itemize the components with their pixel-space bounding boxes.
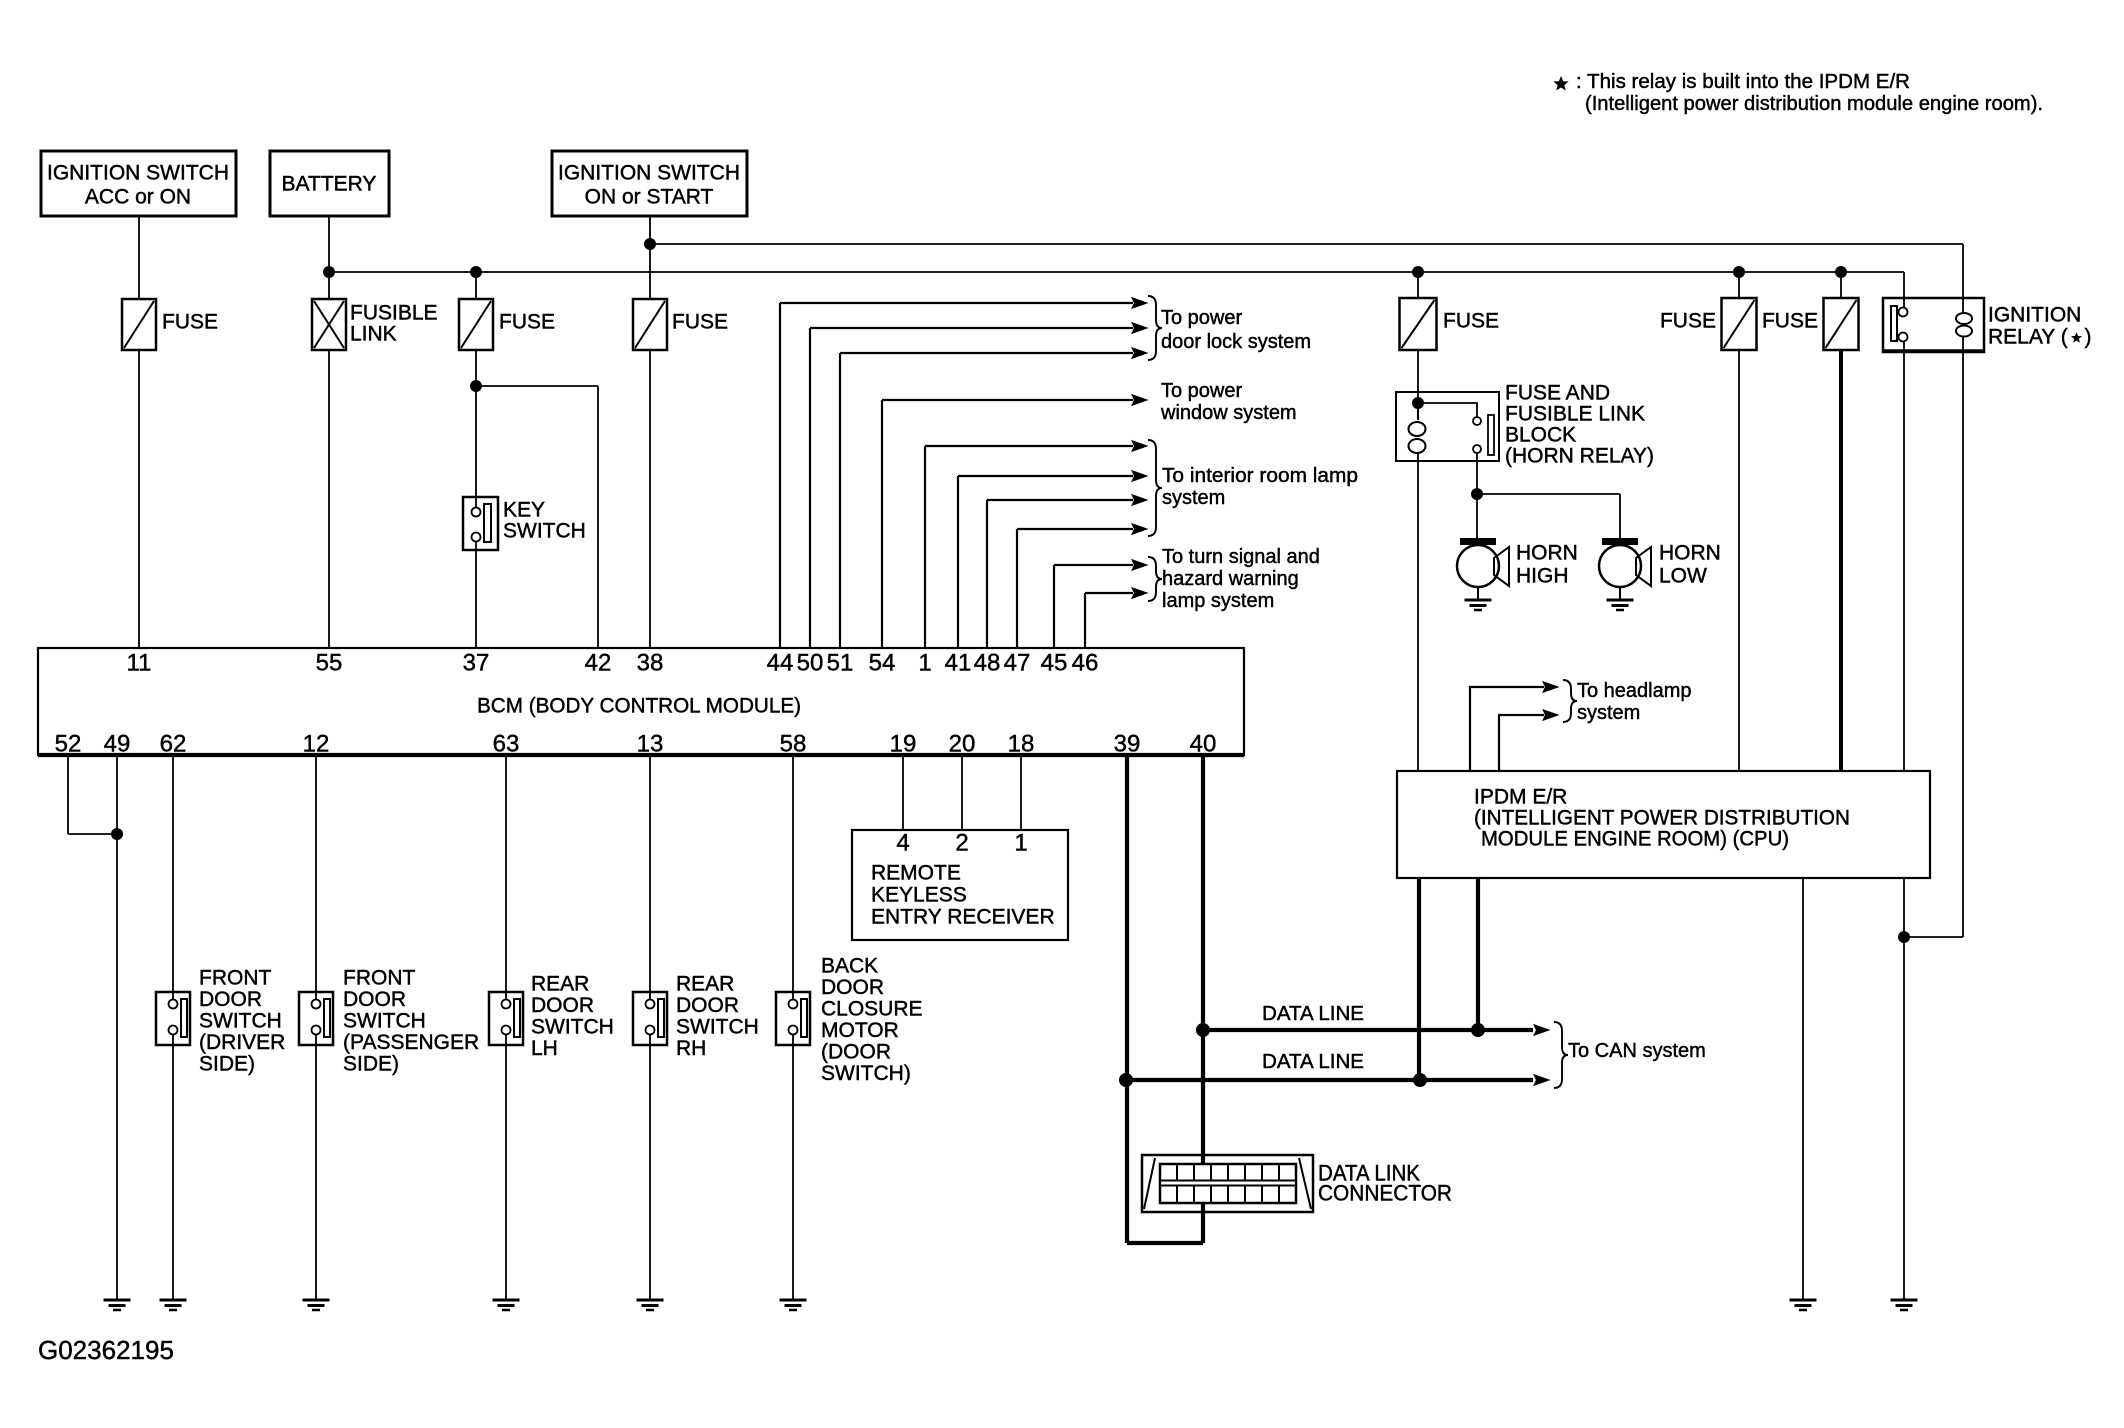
svg-text:51: 51 bbox=[827, 650, 854, 677]
svg-text:SWITCH: SWITCH bbox=[503, 520, 586, 543]
svg-text:DATA LINE: DATA LINE bbox=[1262, 1003, 1364, 1025]
svg-text:CONNECTOR: CONNECTOR bbox=[1318, 1181, 1452, 1206]
svg-text:ON or START: ON or START bbox=[585, 186, 714, 209]
svg-text:MODULE ENGINE ROOM) (CPU): MODULE ENGINE ROOM) (CPU) bbox=[1481, 828, 1789, 851]
svg-text:To CAN system: To CAN system bbox=[1568, 1040, 1706, 1062]
svg-text:48: 48 bbox=[974, 650, 1001, 677]
svg-text:40: 40 bbox=[1190, 731, 1217, 758]
svg-text:system: system bbox=[1577, 702, 1640, 724]
svg-text:54: 54 bbox=[869, 650, 896, 677]
svg-text:(Intelligent power distributio: (Intelligent power distribution module e… bbox=[1585, 93, 2043, 115]
svg-text:50: 50 bbox=[797, 650, 824, 677]
svg-text:12: 12 bbox=[303, 731, 330, 758]
svg-text:39: 39 bbox=[1114, 731, 1141, 758]
svg-text:door lock system: door lock system bbox=[1161, 331, 1311, 353]
svg-text:REAR: REAR bbox=[531, 973, 589, 996]
svg-text:FUSE: FUSE bbox=[1762, 310, 1818, 333]
svg-text:ENTRY RECEIVER: ENTRY RECEIVER bbox=[871, 906, 1055, 929]
svg-text:4: 4 bbox=[896, 830, 909, 857]
svg-text:To interior room lamp: To interior room lamp bbox=[1162, 465, 1358, 487]
svg-text:49: 49 bbox=[104, 731, 131, 758]
svg-text:1: 1 bbox=[1014, 830, 1027, 857]
svg-text:FUSE: FUSE bbox=[1660, 310, 1716, 333]
svg-text:(DOOR: (DOOR bbox=[821, 1041, 891, 1064]
svg-text:To power: To power bbox=[1161, 307, 1242, 329]
svg-text:REMOTE: REMOTE bbox=[871, 862, 961, 885]
svg-text:REAR: REAR bbox=[676, 973, 734, 996]
svg-text:62: 62 bbox=[160, 731, 187, 758]
svg-text:DOOR: DOOR bbox=[199, 988, 262, 1011]
svg-text:FRONT: FRONT bbox=[343, 967, 415, 990]
svg-text:BACK: BACK bbox=[821, 955, 878, 978]
svg-text:2: 2 bbox=[955, 830, 968, 857]
svg-text:HORN: HORN bbox=[1516, 542, 1578, 565]
svg-text:HORN: HORN bbox=[1659, 542, 1721, 565]
svg-text:IGNITION SWITCH: IGNITION SWITCH bbox=[47, 162, 229, 185]
svg-text:ACC or ON: ACC or ON bbox=[85, 186, 191, 209]
svg-text:47: 47 bbox=[1004, 650, 1031, 677]
svg-text:1: 1 bbox=[918, 650, 931, 677]
svg-text:DATA LINE: DATA LINE bbox=[1262, 1051, 1364, 1073]
svg-text:58: 58 bbox=[780, 731, 807, 758]
svg-text:RELAY (: RELAY ( bbox=[1988, 326, 2068, 349]
svg-text:SWITCH): SWITCH) bbox=[821, 1062, 911, 1085]
svg-text:SWITCH: SWITCH bbox=[676, 1016, 759, 1039]
svg-text:FUSE: FUSE bbox=[162, 311, 218, 334]
svg-text:hazard warning: hazard warning bbox=[1162, 568, 1299, 590]
svg-text:LOW: LOW bbox=[1659, 565, 1707, 588]
svg-text:SWITCH: SWITCH bbox=[531, 1016, 614, 1039]
svg-text:DOOR: DOOR bbox=[821, 976, 884, 999]
svg-text:(PASSENGER: (PASSENGER bbox=[343, 1031, 479, 1054]
svg-text:FUSIBLE LINK: FUSIBLE LINK bbox=[1505, 403, 1645, 426]
svg-text:MOTOR: MOTOR bbox=[821, 1019, 899, 1042]
svg-text:SIDE): SIDE) bbox=[343, 1053, 399, 1076]
svg-text:): ) bbox=[2085, 326, 2092, 349]
svg-text:46: 46 bbox=[1072, 650, 1099, 677]
svg-text:13: 13 bbox=[637, 731, 664, 758]
svg-text:11: 11 bbox=[127, 650, 152, 677]
svg-text:63: 63 bbox=[493, 731, 520, 758]
svg-text:(HORN RELAY): (HORN RELAY) bbox=[1505, 445, 1654, 468]
svg-text:FRONT: FRONT bbox=[199, 967, 271, 990]
svg-text:18: 18 bbox=[1008, 731, 1035, 758]
svg-text:IGNITION SWITCH: IGNITION SWITCH bbox=[558, 162, 740, 185]
svg-text:window system: window system bbox=[1160, 402, 1297, 424]
svg-text:37: 37 bbox=[463, 650, 490, 677]
svg-text:41: 41 bbox=[945, 650, 972, 677]
svg-text:DOOR: DOOR bbox=[343, 988, 406, 1011]
svg-text:BATTERY: BATTERY bbox=[282, 173, 377, 196]
svg-text:SWITCH: SWITCH bbox=[343, 1010, 426, 1033]
svg-text:: This relay is built into the: : This relay is built into the IPDM E/R bbox=[1576, 71, 1910, 93]
svg-text:lamp system: lamp system bbox=[1162, 590, 1274, 612]
svg-text:BLOCK: BLOCK bbox=[1505, 424, 1576, 447]
svg-text:RH: RH bbox=[676, 1037, 706, 1060]
svg-text:LH: LH bbox=[531, 1037, 558, 1060]
svg-text:(INTELLIGENT POWER DISTRIBUTIO: (INTELLIGENT POWER DISTRIBUTION bbox=[1474, 807, 1850, 830]
svg-text:FUSIBLE: FUSIBLE bbox=[350, 302, 438, 325]
svg-text:To headlamp: To headlamp bbox=[1577, 680, 1692, 702]
svg-text:19: 19 bbox=[890, 731, 917, 758]
svg-text:42: 42 bbox=[585, 650, 612, 677]
svg-text:system: system bbox=[1162, 487, 1225, 509]
svg-text:KEYLESS: KEYLESS bbox=[871, 884, 967, 907]
svg-text:44: 44 bbox=[767, 650, 794, 677]
svg-text:38: 38 bbox=[637, 650, 664, 677]
svg-text:CLOSURE: CLOSURE bbox=[821, 998, 923, 1021]
svg-text:HIGH: HIGH bbox=[1516, 565, 1569, 588]
svg-text:45: 45 bbox=[1041, 650, 1068, 677]
svg-text:BCM (BODY CONTROL MODULE): BCM (BODY CONTROL MODULE) bbox=[477, 695, 801, 718]
svg-text:To power: To power bbox=[1161, 380, 1242, 402]
svg-text:DOOR: DOOR bbox=[531, 994, 594, 1017]
svg-text:FUSE: FUSE bbox=[672, 311, 728, 334]
svg-text:20: 20 bbox=[949, 731, 976, 758]
svg-text:SIDE): SIDE) bbox=[199, 1053, 255, 1076]
svg-text:FUSE: FUSE bbox=[499, 311, 555, 334]
svg-text:SWITCH: SWITCH bbox=[199, 1010, 282, 1033]
svg-text:IGNITION: IGNITION bbox=[1988, 304, 2081, 327]
svg-text:(DRIVER: (DRIVER bbox=[199, 1031, 285, 1054]
svg-text:DOOR: DOOR bbox=[676, 994, 739, 1017]
svg-text:FUSE AND: FUSE AND bbox=[1505, 382, 1610, 405]
svg-text:G02362195: G02362195 bbox=[38, 1335, 174, 1365]
svg-text:IPDM E/R: IPDM E/R bbox=[1474, 786, 1567, 809]
svg-text:FUSE: FUSE bbox=[1443, 310, 1499, 333]
svg-text:55: 55 bbox=[316, 650, 343, 677]
svg-text:52: 52 bbox=[55, 731, 82, 758]
svg-text:KEY: KEY bbox=[503, 499, 545, 522]
svg-text:To turn signal and: To turn signal and bbox=[1162, 546, 1320, 568]
svg-text:LINK: LINK bbox=[350, 323, 397, 346]
